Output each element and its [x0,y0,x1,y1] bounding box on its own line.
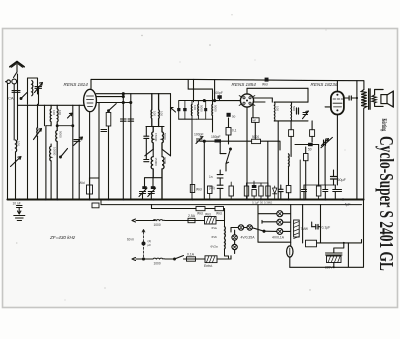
resistor R10 [289,130,294,137]
lamp LA7 [277,228,283,234]
bus jog secondary line [101,200,362,205]
capacitor C21 below tube3 [335,190,342,192]
scan noise overlay [12,14,346,300]
capacitor C22 0.1uF [316,225,318,230]
resistor R21 on riser [190,185,194,193]
mains switch S7 [175,256,184,260]
speaker bracket [375,90,384,107]
wire row y=177.7 [145,178,163,187]
trimmer T1 [142,186,146,189]
speaker coupling coil [372,95,376,103]
trimmer T2 [151,186,155,189]
osc box left wall [179,101,192,120]
wire link [146,126,164,128]
wire riser x130.8 [130,94,132,200]
top anode rail [91,79,364,80]
resistor R20 at jog [92,203,99,208]
svg-text:100: 100 [160,111,164,116]
resistor R9 [266,186,270,196]
wire drop from rail x=193.5 [193,79,195,101]
svg-text:100: 100 [275,106,279,111]
coupling cap C10 (box) [252,118,260,123]
IFT3 coil a [273,102,276,121]
IFT1 coil c [152,127,153,150]
svg-text:100: 100 [153,111,157,116]
wire y=267.3 [290,200,364,268]
wire x=302.6 [302,205,304,243]
IFT3 coil b [290,102,293,121]
electrolytic C18 [323,190,328,192]
capacitor CA [12,91,20,93]
wire riser x89.6 (tube cathode) [89,113,91,200]
junction dots on bus [18,198,326,200]
IFT2 coil a [190,104,193,116]
resistor R23 [286,186,291,193]
capacitor C26 1nF [217,175,223,178]
capacitor C5 [128,119,134,121]
coil L4 (10000) [50,146,51,161]
electrolytic C16 50uF [331,177,337,180]
wire antenna column pair [14,74,17,140]
wires tube3 [325,81,337,185]
capacitor C9 (filled) [227,113,231,117]
lamp LA6 [277,219,283,225]
wire link y=125.7 [46,125,73,127]
grid manifold wire y=105.3 [18,104,85,106]
oscillator resistor R4 [226,128,231,136]
trimmer capacitor C23 [197,139,203,141]
capacitor C31 (filled) [177,108,180,111]
transformer core [369,89,371,109]
scale lamp switch S8 [252,228,264,231]
suppressor resistor R18 (hatched) [205,256,217,263]
capacitor C6 [144,136,149,138]
svg-text:100: 100 [17,141,21,146]
filament row A y=208.5 [152,208,197,210]
wire riser x99 [98,103,100,200]
capacitor C28 (filled) [252,185,257,188]
IFT1 coil a [150,94,153,127]
band switch S2 [61,149,68,158]
coil L13 variable [36,128,39,137]
padder capacitor C11 150pF (filled) [215,139,222,142]
tube V2 RENS 1854 [239,92,255,108]
resistor R7 [244,186,248,196]
tube2 pin wires right [247,98,272,200]
tube2 top wire [247,88,308,94]
choke L11 [153,219,165,222]
svg-text:10000: 10000 [52,147,56,156]
svg-text:15000: 15000 [154,133,158,142]
svg-text:500: 500 [292,106,296,111]
switch S5 right [162,149,171,156]
trimmer arrow [171,108,176,113]
svg-text:5000: 5000 [200,105,204,112]
resistor R8 [259,186,263,196]
svg-text:5000: 5000 [163,133,167,140]
wire drop from rail to tube2 grid line [214,80,216,101]
antenna jack circle [12,79,17,84]
resistor R16 [215,207,224,211]
wire riser x72.8 [72,105,74,199]
capacitor C24 [144,160,149,162]
capacitor C32 (filled) [183,108,186,111]
coil L3a (100) [49,105,52,125]
capacitor C19 [333,190,338,192]
IFT1 coil e [151,157,153,178]
filament row B y=220.5 [132,219,155,222]
wire riser x37.5 below [37,104,39,127]
variable arrow through L1 [11,157,22,167]
wire risers to ground bus [44,105,46,125]
resistor R1 (box) [106,113,111,127]
tube V3 RENS 1823d [331,92,344,115]
lamp LA1 [238,225,243,230]
wire riser x=318.6 [318,145,320,187]
coil L3b (100) [56,105,59,130]
wire riser x=300.2 [299,160,301,200]
input coil block L2 [28,78,38,104]
switch S4 [109,104,117,111]
capacitor C29 (filled) [308,143,313,146]
small box below [306,240,317,247]
capacitor C13 [279,189,284,191]
variable cap C3 arrow [74,140,80,142]
trimmer T3 [303,113,308,115]
IFT1 coil d [162,127,163,150]
wire left rail [7,84,9,200]
svg-text:15000: 15000 [154,158,158,167]
wire drop x=308 [307,88,309,102]
capacitor C7 (filled) [204,108,207,111]
lamp LA2 [247,225,252,230]
output transformer T-out primary (zigzag) [361,90,367,109]
earth terminal [7,80,11,84]
voltage selector column [143,232,145,259]
coil value labels [17,105,297,166]
IFT1 coil b [158,94,161,127]
svg-text:100: 100 [52,110,56,115]
heater transformer winding W1b [224,239,227,250]
tube V1 RENS 1814 [84,89,97,111]
ground bus [8,198,364,200]
open contact stub [262,220,277,223]
svg-text:Cyclo-Super S 2401 GL: Cyclo-Super S 2401 GL [375,136,397,271]
lamp wires [231,228,247,254]
capacitor C17 [302,190,307,192]
rail branch to osc coil [188,80,212,89]
switch S6 [226,149,231,164]
capacitor C25 [101,130,107,132]
selector capacitor (filled) [142,242,146,246]
switch S-ant [14,72,18,78]
antenna A1 [10,62,24,68]
resistor R22 [229,186,233,196]
IFT1 coil f [162,157,164,200]
svg-text:100: 100 [58,110,62,115]
tube1 plate wire [96,94,170,103]
diode D1 [273,186,277,194]
resistor R12 [304,154,309,161]
switch arrow S3 [68,113,73,118]
svg-text:100: 100 [193,105,197,110]
svg-text:5000: 5000 [163,158,167,165]
arrow through L13 [34,129,42,140]
lamp LA5 [277,211,283,217]
HT resistor R19 (hatched vertical) [294,220,300,239]
feedthrough capacitor on rail [265,78,269,82]
lamp bracket wiring [258,205,291,243]
wire riser x=356.9 [356,81,358,200]
heater transformer winding W1a [224,227,227,238]
resistor R11 [310,130,315,137]
grid stopper cap C20 [349,96,351,100]
svg-text:5000: 5000 [58,131,62,138]
wire antenna down-lead [16,62,18,72]
switch S9 [21,93,27,99]
rectifier tube V4 [287,246,293,257]
wire riser x123 [122,97,124,200]
filament row C y=259 [132,258,153,261]
resistor R14 [316,186,321,196]
switch S5 left [145,149,153,156]
resistor R15 [196,207,205,211]
volume pot arrow [321,139,328,146]
speaker cone [388,91,394,107]
variable capacitor C2 with arrow [35,87,42,89]
capacitor C8 100pF [217,95,221,99]
resistor R3 (Wid) [87,185,93,194]
speaker motor box [381,95,387,104]
svg-text:5000: 5000 [214,105,218,112]
wire riser x=325.1 [324,146,326,185]
lamp LA3 [232,235,237,240]
tone capacitor C15 with arrow [324,140,326,146]
wire riser x27.5 below [27,105,29,199]
grid wire [195,100,240,102]
svg-text:Körting: Körting [379,119,386,132]
capacitor C4 [121,119,127,121]
capacitor C27 [217,185,223,188]
capacitor C14 [297,108,299,114]
resistor R24 [208,186,213,194]
wire riser x170.5 [170,94,172,156]
volume feed wire with blob cap [295,144,308,146]
coil L8 (5000) [211,104,214,116]
choke L12 [153,257,165,260]
fuse F1 2.5A [188,218,195,222]
coil L5 [56,130,57,199]
fuse F2 0.1A [187,257,196,261]
wire riser x79.2 [78,105,80,199]
mains transformer T-mains [326,253,343,263]
resistor R6 horizontal (Wid) [252,139,261,143]
coil L1 (100) [16,140,17,152]
lamp LA4 [232,244,237,249]
osc wire y=141.2 [200,141,280,199]
wire y=242.9 [317,240,362,243]
capacitor C30 4uF below bus [342,198,344,200]
wire risers mid [268,121,278,200]
output choke L10 [288,154,291,167]
IFT2 coil b [197,104,200,116]
